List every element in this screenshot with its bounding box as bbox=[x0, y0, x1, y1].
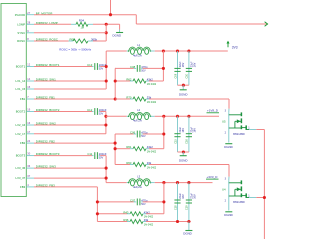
svg-text:19: 19 bbox=[27, 108, 30, 112]
svg-text:BOOT2: BOOT2 bbox=[16, 110, 26, 114]
wire to resistor R36 bbox=[97, 221, 127, 223]
junction SW3 bbox=[105, 167, 108, 170]
junction OUT2 a bbox=[162, 115, 165, 118]
capacitor C07 bbox=[136, 199, 138, 206]
resistor R05 bbox=[73, 39, 88, 43]
svg-text:DGND: DGND bbox=[224, 145, 233, 149]
svg-text:C13: C13 bbox=[87, 63, 93, 67]
svg-text:LX3_36: LX3_36 bbox=[16, 166, 26, 170]
svg-text:DGND: DGND bbox=[224, 213, 233, 217]
svg-text:SYNC: SYNC bbox=[17, 31, 25, 35]
pin 16 LX2_16 bbox=[26, 124, 34, 126]
junction cap gnd 3a bbox=[176, 220, 179, 223]
wire BOOT C13 bbox=[34, 66, 92, 68]
filter capacitor C16 bbox=[188, 116, 190, 152]
svg-text:1% 0402: 1% 0402 bbox=[147, 101, 157, 104]
filter capacitor C18 bbox=[177, 183, 179, 222]
junction cap gnd 2 bbox=[182, 150, 185, 153]
resistor R62 bbox=[133, 79, 146, 83]
svg-text:R04: R04 bbox=[79, 19, 85, 23]
wire LX3_37 bbox=[34, 177, 106, 179]
wire to capacitor C06 bbox=[115, 133, 134, 135]
capacitor C12 bbox=[94, 108, 96, 115]
inductor L1 bbox=[129, 47, 150, 51]
channel 3 left vertical (SW3 node) bbox=[105, 156, 107, 183]
svg-text:C19: C19 bbox=[186, 205, 189, 210]
transistor U4 BSS138W bbox=[228, 180, 230, 210]
wire to capacitor C08 bbox=[115, 67, 134, 69]
wire FB3 bbox=[34, 186, 97, 188]
svg-text:LX2_17: LX2_17 bbox=[16, 132, 26, 136]
svg-text:C18: C18 bbox=[174, 205, 177, 210]
svg-text:C08: C08 bbox=[130, 65, 136, 69]
svg-text:L2: L2 bbox=[137, 108, 140, 112]
svg-text:17: 17 bbox=[27, 130, 30, 134]
filter capacitor C09 bbox=[177, 51, 179, 85]
pin 12 BOOT1 bbox=[26, 66, 34, 68]
pin 8 ROSC bbox=[26, 40, 34, 42]
pin 28 LOMP bbox=[26, 23, 34, 25]
channel 1 left vertical (SW1 node) bbox=[105, 51, 107, 89]
svg-text:4uF,2A: 4uF,2A bbox=[133, 53, 142, 57]
junction PGOOD bbox=[109, 13, 112, 16]
svg-text:4uF,2A: 4uF,2A bbox=[133, 119, 142, 123]
junction OUT3 a bbox=[162, 181, 165, 184]
svg-text:1% 0402: 1% 0402 bbox=[147, 166, 157, 169]
svg-text:16V: 16V bbox=[182, 194, 185, 199]
svg-text:BSS138W: BSS138W bbox=[233, 201, 245, 204]
pin 15 LX1_15 bbox=[26, 88, 34, 90]
capacitor C11 bbox=[94, 152, 96, 159]
pin 37 LX3_37 bbox=[26, 177, 34, 179]
junction cap gnd 3b bbox=[187, 220, 190, 223]
svg-text:FB2: FB2 bbox=[20, 141, 26, 145]
svg-text:BOOT1: BOOT1 bbox=[16, 65, 26, 69]
resistor R43 bbox=[130, 212, 143, 216]
svg-text:1% 0402: 1% 0402 bbox=[147, 151, 157, 154]
filter capacitor C10 bbox=[188, 51, 190, 85]
svg-text:FB3: FB3 bbox=[20, 185, 26, 189]
resistor R63 bbox=[133, 163, 146, 167]
drain rail vertical bbox=[263, 130, 265, 240]
svg-text:ROSC = 365k -> 500kHz: ROSC = 365k -> 500kHz bbox=[59, 47, 92, 51]
wire gate feed Q5 bbox=[228, 99, 230, 109]
svg-text:14: 14 bbox=[27, 77, 30, 81]
svg-text:16V: 16V bbox=[194, 62, 197, 67]
wire LX2_17 bbox=[34, 133, 106, 135]
ground rail bbox=[178, 221, 189, 223]
svg-text:ROSC: ROSC bbox=[17, 39, 25, 43]
junction R62 left bbox=[114, 79, 117, 82]
pin 14 LX1_14 bbox=[26, 80, 34, 82]
wire to capacitor C07 bbox=[97, 201, 133, 203]
junction OUT1 a bbox=[162, 49, 165, 52]
svg-text:LOMP: LOMP bbox=[17, 22, 25, 26]
wire to inductor L1 bbox=[106, 50, 127, 52]
ground DGND (top) bbox=[119, 30, 121, 33]
junction L2 feed bbox=[104, 115, 107, 118]
wire to inductor L2 bbox=[106, 115, 127, 117]
svg-text:50V: 50V bbox=[141, 203, 146, 206]
svg-text:C06: C06 bbox=[130, 130, 136, 134]
inductor L3 bbox=[129, 179, 150, 183]
wire to resistor R70 bbox=[115, 98, 130, 100]
svg-text:16V: 16V bbox=[194, 194, 197, 199]
ground rail bbox=[178, 84, 189, 86]
svg-text:LX1_15: LX1_15 bbox=[16, 87, 26, 91]
svg-text:C16: C16 bbox=[186, 139, 189, 144]
svg-text:LX2_16: LX2_16 bbox=[16, 123, 26, 127]
junction R43 left bbox=[96, 212, 99, 215]
filter capacitor C15 bbox=[177, 116, 179, 152]
svg-text:16V: 16V bbox=[182, 128, 185, 133]
svg-text:15: 15 bbox=[27, 85, 30, 89]
inductor L2 bbox=[129, 112, 150, 116]
channel 2 left vertical (SW2 node) bbox=[105, 112, 107, 134]
svg-text:7: 7 bbox=[27, 95, 29, 99]
junction FB1 bbox=[114, 97, 117, 100]
svg-text:16V: 16V bbox=[182, 62, 185, 67]
junction C07 bbox=[162, 200, 165, 203]
off-page flag BF_MOTOR bbox=[265, 22, 268, 26]
svg-text:C07: C07 bbox=[130, 198, 136, 202]
wire SW2 / LX2_16 bbox=[34, 124, 106, 126]
svg-text:3: 3 bbox=[225, 109, 227, 112]
svg-text:DGND: DGND bbox=[179, 92, 188, 96]
svg-text:U4: U4 bbox=[222, 187, 226, 191]
wire OUT2 +1V8_D bbox=[164, 115, 219, 117]
svg-text:1M: 1M bbox=[81, 27, 84, 30]
svg-text:37: 37 bbox=[27, 174, 30, 178]
wire OUT1 3V3 bbox=[163, 50, 227, 52]
capacitor C06 bbox=[136, 131, 138, 138]
wire OUT3 +3V3_D bbox=[164, 182, 213, 184]
svg-text:4: 4 bbox=[27, 183, 29, 187]
svg-text:R36: R36 bbox=[123, 218, 129, 222]
svg-text:PGOOD: PGOOD bbox=[15, 13, 25, 17]
wire U4 drain to rail bbox=[256, 197, 264, 199]
capacitor C13 bbox=[94, 63, 96, 70]
ground DGND (U5 source) bbox=[228, 142, 230, 144]
wire to resistor R61 bbox=[115, 148, 130, 150]
svg-text:BOOT3: BOOT3 bbox=[16, 154, 26, 158]
svg-text:16: 16 bbox=[27, 121, 30, 125]
channel 3 FB vertical bbox=[96, 187, 98, 222]
svg-text:1% 0402: 1% 0402 bbox=[144, 223, 154, 226]
svg-text:28: 28 bbox=[27, 20, 30, 24]
wire SYNC bbox=[34, 32, 106, 34]
wire to resistor R43 bbox=[97, 213, 127, 215]
wire FB2 bbox=[34, 142, 115, 144]
junction SW2 bbox=[104, 123, 107, 126]
svg-text:2: 2 bbox=[225, 132, 227, 135]
pin 9 SYNC bbox=[26, 32, 34, 34]
junction BOOT1 bbox=[105, 65, 108, 68]
channel 2 right vertical (FB2 node) bbox=[114, 134, 116, 165]
svg-text:3V3: 3V3 bbox=[232, 46, 238, 50]
svg-text:27: 27 bbox=[27, 11, 30, 15]
junction C08 bbox=[162, 67, 165, 70]
wire ROSC bbox=[34, 40, 69, 42]
ground DGND (U4 source) bbox=[225, 211, 232, 213]
pin 36 LX3_36 bbox=[26, 167, 34, 169]
capacitor C08 bbox=[136, 65, 138, 72]
wire SW1 / LX1_14 bbox=[34, 80, 106, 82]
svg-text:DGND: DGND bbox=[179, 158, 188, 162]
junction OUT3 b bbox=[176, 181, 179, 184]
wire PGOOD net BF_MOTOR bbox=[34, 14, 136, 16]
svg-text:L1: L1 bbox=[137, 43, 140, 47]
svg-text:3: 3 bbox=[225, 177, 227, 180]
svg-text:50V: 50V bbox=[141, 69, 146, 72]
wire U5 drain to rail bbox=[256, 129, 264, 131]
svg-text:R62: R62 bbox=[126, 78, 132, 82]
junction LX3_37 bbox=[105, 177, 108, 180]
svg-text:12: 12 bbox=[27, 63, 30, 67]
svg-text:16V: 16V bbox=[194, 128, 197, 133]
wire LX1_15 bbox=[34, 88, 106, 90]
channel 1 right vertical (FB1 node) bbox=[114, 68, 116, 99]
vertical OUT1 to snubber bbox=[162, 51, 164, 81]
ground DGND (channel 2) bbox=[182, 152, 184, 156]
wire SW3 / LX3_36 bbox=[34, 167, 106, 169]
junction C06 bbox=[162, 132, 165, 135]
pin 27 PGOOD bbox=[26, 14, 34, 16]
ground DGND (channel 3) bbox=[188, 222, 190, 231]
svg-text:9: 9 bbox=[27, 29, 29, 33]
svg-text:30: 30 bbox=[27, 152, 30, 156]
wire PGOOD vertical from top edge bbox=[110, 0, 112, 15]
junction OUT2 b bbox=[176, 115, 179, 118]
connector J1 (IC edge connector box) bbox=[1, 4, 26, 197]
svg-text:24: 24 bbox=[27, 139, 30, 143]
resistor R61 bbox=[133, 147, 146, 151]
junction cap gnd 1 bbox=[182, 84, 185, 87]
wire LOMP to DGND bbox=[93, 23, 120, 25]
pin 24 FB2 bbox=[26, 142, 34, 144]
svg-text:C10: C10 bbox=[186, 73, 189, 78]
svg-text:50V: 50V bbox=[141, 135, 146, 138]
gate lead Q4 bbox=[228, 177, 230, 181]
svg-text:R61: R61 bbox=[126, 145, 132, 149]
resistor R70 bbox=[133, 97, 146, 101]
vertical OUT2 to snubber bbox=[163, 116, 165, 148]
pin 30 BOOT3 bbox=[26, 155, 34, 157]
wire LOMP bbox=[34, 23, 71, 25]
svg-text:C15: C15 bbox=[174, 139, 177, 144]
svg-text:+3V3_D: +3V3_D bbox=[207, 175, 219, 179]
junction drain rail bbox=[263, 196, 266, 199]
junction SW1 bbox=[105, 79, 108, 82]
svg-text:8: 8 bbox=[27, 37, 29, 41]
resistor R04 bbox=[76, 22, 88, 26]
pin 19 BOOT2 bbox=[26, 111, 34, 113]
gate lead Q5 bbox=[228, 109, 230, 113]
svg-text:C12: C12 bbox=[87, 108, 93, 112]
pin 4 FB3 bbox=[26, 186, 34, 188]
svg-text:DGND: DGND bbox=[113, 33, 122, 37]
wire LOMP-SYNC-ROSC vertical bbox=[105, 24, 107, 41]
wire gate feed Q4 bbox=[228, 165, 230, 177]
svg-text:R63: R63 bbox=[126, 161, 132, 165]
svg-text:L3: L3 bbox=[137, 174, 140, 178]
svg-text:BSS138W: BSS138W bbox=[233, 133, 245, 136]
transistor U5 BSS138W bbox=[228, 112, 230, 142]
svg-text:R05: R05 bbox=[70, 38, 76, 42]
junction OUT1 c bbox=[187, 49, 190, 52]
wire to resistor R63 bbox=[115, 164, 130, 166]
power flag 3V3 bbox=[227, 44, 229, 48]
junction OUT3 c bbox=[187, 181, 190, 184]
svg-text:1% 0402: 1% 0402 bbox=[147, 83, 157, 86]
wire to resistor R62 bbox=[115, 80, 130, 82]
junction LOMP bbox=[105, 23, 108, 26]
ground DGND (channel 1) bbox=[182, 85, 184, 90]
svg-text:DGND: DGND bbox=[183, 231, 192, 235]
pin 17 LX2_17 bbox=[26, 133, 34, 135]
wire BOOT C12 bbox=[34, 111, 92, 113]
wire BOOT C11 bbox=[34, 155, 92, 157]
junction OUT1 b bbox=[176, 49, 179, 52]
svg-text:U5: U5 bbox=[222, 119, 226, 123]
svg-text:LX3_37: LX3_37 bbox=[16, 176, 26, 180]
svg-text:LX1_14: LX1_14 bbox=[16, 79, 26, 83]
junction R61 left bbox=[114, 147, 117, 150]
svg-text:+1V8_D: +1V8_D bbox=[207, 109, 219, 113]
svg-text:2: 2 bbox=[225, 200, 227, 203]
junction OUT2 c bbox=[187, 115, 190, 118]
filter capacitor C19 bbox=[188, 183, 190, 222]
svg-text:C11: C11 bbox=[87, 152, 92, 156]
junction FB2 bbox=[114, 142, 117, 145]
svg-text:36: 36 bbox=[27, 164, 30, 168]
resistor R36 bbox=[130, 220, 143, 224]
svg-text:FB1: FB1 bbox=[20, 97, 26, 101]
junction C07 left bbox=[96, 200, 99, 203]
pin 7 FB1 bbox=[26, 98, 34, 100]
svg-text:R70: R70 bbox=[126, 96, 132, 100]
svg-text:C09: C09 bbox=[174, 73, 177, 78]
svg-text:4uF,2A: 4uF,2A bbox=[133, 185, 142, 189]
svg-text:R43: R43 bbox=[123, 210, 129, 214]
wire FB1 bbox=[34, 98, 115, 100]
wire to inductor L3 bbox=[106, 182, 127, 184]
ground rail bbox=[178, 151, 189, 153]
junction SYNC bbox=[105, 31, 108, 34]
vertical OUT3 to snubber bbox=[163, 183, 165, 214]
